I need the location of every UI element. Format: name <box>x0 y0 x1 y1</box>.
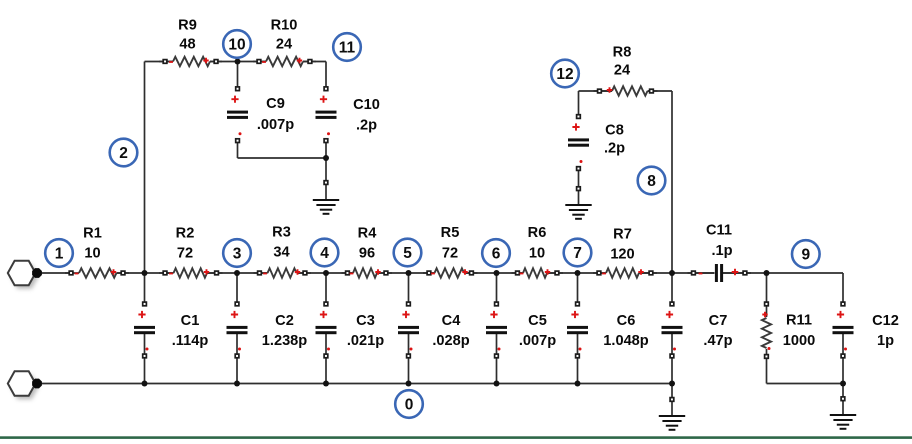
ground under C12 <box>830 414 856 416</box>
junction at x=672.0 main line <box>669 270 675 276</box>
svg-text:R1: R1 <box>83 226 102 242</box>
svg-text:72: 72 <box>442 246 458 262</box>
wire C7 ground lead <box>671 384 673 400</box>
svg-text:1p: 1p <box>877 333 894 349</box>
node 0 <box>395 390 423 418</box>
svg-text:C1: C1 <box>181 313 200 329</box>
wire R4 to R5 through node 5 <box>377 272 435 274</box>
capacitor C4 <box>398 302 470 358</box>
svg-text:R9: R9 <box>178 18 197 34</box>
wire top row R9 left <box>145 61 174 63</box>
node 6 <box>482 239 510 267</box>
wire R11/C12 sub rail <box>767 383 844 385</box>
svg-text:.2p: .2p <box>604 141 625 157</box>
wire C7 drop <box>671 273 673 304</box>
svg-text:.007p: .007p <box>519 333 556 349</box>
node 3 <box>223 239 251 267</box>
svg-text:C6: C6 <box>617 313 636 329</box>
junction at x=496.5 main line <box>494 270 500 276</box>
wire C12 ground lead <box>842 384 844 399</box>
wire R8 left <box>579 90 613 92</box>
wire R11 branch top <box>766 273 768 317</box>
svg-text:.021p: .021p <box>347 333 384 349</box>
wire C9 bottom elbow <box>237 142 239 159</box>
svg-text:9: 9 <box>801 246 810 263</box>
capacitor C5 <box>486 302 556 358</box>
svg-text:C9: C9 <box>266 96 285 112</box>
svg-text:R10: R10 <box>271 18 298 34</box>
port P1 <box>8 261 42 289</box>
svg-text:1.238p: 1.238p <box>262 333 308 349</box>
capacitor C6 <box>567 302 649 358</box>
capacitor C8 <box>568 115 625 171</box>
svg-text:10: 10 <box>529 246 545 262</box>
wire C11 to C12 corner through node 9 <box>723 272 843 274</box>
svg-text:.028p: .028p <box>432 333 469 349</box>
svg-text:R2: R2 <box>176 226 195 242</box>
svg-text:1000: 1000 <box>783 333 815 349</box>
node 4 <box>311 239 339 267</box>
junction at x=577.5 main line <box>575 270 581 276</box>
junction C9/C10 bottom wire <box>323 155 329 161</box>
ground terminal square under C10 <box>324 181 328 185</box>
node 7 <box>564 239 592 267</box>
wire node2 riser <box>144 62 146 274</box>
svg-text:.114p: .114p <box>172 333 209 349</box>
svg-text:1.048p: 1.048p <box>603 333 649 349</box>
svg-text:24: 24 <box>614 63 631 79</box>
resistor R4 <box>342 226 393 278</box>
wire R9 to R10 through node 10 <box>210 61 266 63</box>
ground under C8 <box>565 204 591 206</box>
resistor R2 <box>159 226 223 278</box>
svg-text:34: 34 <box>273 245 290 261</box>
svg-text:96: 96 <box>359 246 375 262</box>
junction at x=237.0 main line <box>234 270 240 276</box>
svg-text:C12: C12 <box>872 313 899 329</box>
svg-text:24: 24 <box>276 37 293 53</box>
junction at x=326.0 main line <box>323 270 329 276</box>
resistor R8 <box>594 45 658 96</box>
wire main line port1 to R1 <box>37 272 71 274</box>
junction C12 sub rail <box>840 381 846 387</box>
junction at x=577.5 bottom rail <box>575 381 581 387</box>
wire R1 to R2 through node2 junction <box>117 272 174 274</box>
wire R10 to node 11 corner <box>303 61 326 63</box>
wire bottom rail <box>37 383 672 385</box>
svg-text:R4: R4 <box>358 226 378 242</box>
node 1 <box>45 239 73 267</box>
wire C6 drop <box>577 273 579 304</box>
bottom green separator line <box>0 436 912 439</box>
junction at x=496.5 bottom rail <box>494 381 500 387</box>
svg-text:12: 12 <box>556 66 573 83</box>
wire R6 to R7 through node 7 <box>547 272 606 274</box>
svg-text:48: 48 <box>179 37 195 53</box>
node 10 <box>223 30 251 58</box>
svg-text:7: 7 <box>573 245 582 262</box>
svg-text:C7: C7 <box>709 313 728 329</box>
capacitor C11 <box>688 223 752 283</box>
capacitor C10 <box>316 87 380 143</box>
node 8 <box>638 167 666 195</box>
capacitor C3 <box>316 302 385 358</box>
ground terminal square under C12 <box>841 397 845 401</box>
svg-text:3: 3 <box>233 245 242 262</box>
svg-text:C3: C3 <box>356 313 375 329</box>
svg-text:R7: R7 <box>613 227 632 243</box>
wire R8 right corner down to main line <box>648 90 673 92</box>
svg-text:C11: C11 <box>706 223 732 239</box>
junction at x=408.5 main line <box>406 270 412 276</box>
node 11 <box>333 33 361 61</box>
svg-text:C2: C2 <box>275 313 294 329</box>
svg-text:72: 72 <box>177 246 193 262</box>
svg-text:C8: C8 <box>605 123 624 139</box>
wire node 10 drop to C9 <box>237 62 239 89</box>
svg-text:C5: C5 <box>528 313 547 329</box>
svg-text:.2p: .2p <box>356 118 377 134</box>
junction at x=408.5 bottom rail <box>406 381 412 387</box>
capacitor C7 <box>662 302 733 358</box>
port P2 <box>8 371 42 399</box>
wire R2 to R3 through node 3 <box>207 272 268 274</box>
resistor R7 <box>593 227 657 278</box>
node 5 <box>394 239 422 267</box>
svg-text:.007p: .007p <box>257 117 294 133</box>
wire R3 to R4 through node 4 <box>297 272 354 274</box>
capacitor C9 <box>227 87 294 143</box>
resistor R3 <box>254 225 312 278</box>
svg-text:R8: R8 <box>613 45 632 61</box>
capacitor C2 <box>227 302 308 358</box>
svg-text:R11: R11 <box>786 313 812 329</box>
node 12 <box>551 60 579 88</box>
resistor R6 <box>512 225 564 278</box>
resistor R1 <box>65 226 129 278</box>
svg-text:0: 0 <box>405 396 414 413</box>
wire node 12 riser <box>578 91 580 117</box>
junction at x=144.5 bottom rail <box>142 381 148 387</box>
svg-text:R3: R3 <box>272 225 291 241</box>
node 9 <box>792 240 820 268</box>
capacitor C12 <box>833 302 899 358</box>
svg-text:2: 2 <box>119 145 128 162</box>
resistor R11 <box>762 302 815 358</box>
wire ground lead below C10 <box>325 185 327 201</box>
svg-text:10: 10 <box>228 36 245 53</box>
wire R11 branch bottom <box>766 349 768 384</box>
svg-text:4: 4 <box>320 245 329 262</box>
wire C12 drop <box>842 273 844 304</box>
node 2 <box>110 139 138 167</box>
capacitor C1 <box>134 302 208 358</box>
wire R5 to R6 through node 6 <box>464 272 523 274</box>
resistor R10 <box>253 18 316 67</box>
svg-text:6: 6 <box>492 245 501 262</box>
ground under C7 <box>659 415 685 417</box>
svg-text:C10: C10 <box>353 97 380 113</box>
svg-text:1: 1 <box>55 245 64 262</box>
svg-text:120: 120 <box>610 247 634 263</box>
ground terminal square under C8 <box>577 187 581 191</box>
svg-text:5: 5 <box>403 245 412 262</box>
svg-text:11: 11 <box>339 39 356 56</box>
wire C3 drop <box>325 273 327 304</box>
svg-text:10: 10 <box>84 246 100 262</box>
wire C8 bottom to ground <box>578 169 580 189</box>
wire C10 bottom to ground terminal <box>325 142 327 183</box>
resistor R9 <box>159 18 222 67</box>
junction at x=237.0 bottom rail <box>234 381 240 387</box>
wire R7 to C11 through node 8 junction <box>639 272 715 274</box>
wire C4 drop <box>408 273 410 304</box>
ground under C10 <box>313 199 339 201</box>
svg-text:8: 8 <box>647 173 656 190</box>
wire C1 drop <box>144 273 146 304</box>
svg-text:R5: R5 <box>441 225 460 241</box>
junction at x=766.5 main line <box>764 270 770 276</box>
junction node 10 <box>235 59 241 65</box>
wire C5 drop <box>496 273 498 304</box>
svg-text:.47p: .47p <box>703 333 732 349</box>
resistor R5 <box>423 225 478 278</box>
junction at x=326.0 bottom rail <box>323 381 329 387</box>
svg-text:.1p: .1p <box>711 243 732 259</box>
wire C2 drop <box>236 273 238 304</box>
ground terminal square under C7 <box>670 398 674 402</box>
svg-text:R6: R6 <box>528 225 547 241</box>
junction at x=144.5 main line <box>142 270 148 276</box>
junction at x=672.0 bottom rail <box>669 381 675 387</box>
svg-text:C4: C4 <box>442 313 462 329</box>
wire node 11 drop to C10 <box>325 62 327 89</box>
